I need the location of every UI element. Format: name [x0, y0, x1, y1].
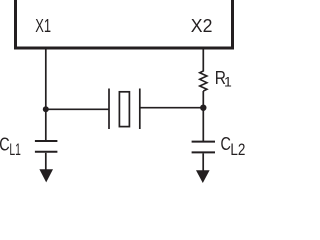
- node junction left: [43, 106, 49, 112]
- crystal right plate: [139, 89, 141, 130]
- svg-text:1: 1: [224, 74, 232, 90]
- node junction right: [200, 105, 206, 111]
- svg-text:C: C: [221, 133, 231, 154]
- IC box (top, cropped): [16, 0, 233, 48]
- svg-text:C: C: [0, 134, 10, 155]
- ground arrow left: [39, 169, 53, 182]
- wire horizontal crystal to right node: [140, 107, 204, 109]
- capacitor CL1 bottom plate: [35, 151, 58, 153]
- svg-text:X2: X2: [191, 16, 213, 36]
- svg-text:L2: L2: [230, 141, 245, 159]
- ground arrow right: [196, 170, 210, 183]
- resistor R1: [200, 71, 207, 91]
- capacitor CL2 bottom plate: [192, 151, 215, 153]
- wire CL1 to ground: [45, 153, 47, 171]
- wire horizontal left to crystal: [46, 108, 109, 110]
- svg-text:L1: L1: [9, 141, 21, 159]
- crystal body: [119, 92, 129, 127]
- wire X2 vertical top: [202, 49, 204, 72]
- capacitor CL1 top plate: [35, 140, 58, 142]
- crystal left plate: [108, 89, 110, 130]
- svg-text:X1: X1: [35, 16, 51, 36]
- capacitor CL2 top plate: [192, 141, 215, 143]
- wire resistor to junction: [202, 91, 204, 142]
- wire CL2 to ground: [202, 153, 204, 172]
- wire X1 vertical: [45, 49, 47, 141]
